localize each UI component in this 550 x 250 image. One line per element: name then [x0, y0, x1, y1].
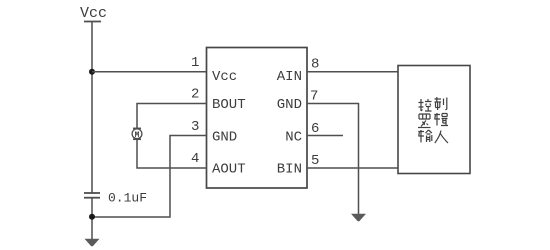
motor M — [132, 128, 142, 140]
wire pin2 BOUT — [137, 104, 207, 130]
pin number 1 — [191, 55, 199, 71]
svg-text:NC: NC — [285, 130, 302, 146]
char Kong (control) — [419, 99, 432, 111]
capacitor C1 bottom plate — [84, 197, 100, 199]
wire pin7 GND down to ground — [307, 104, 359, 215]
label control logic input (hand-drawn CJK) — [418, 97, 448, 143]
svg-text:5: 5 — [311, 153, 319, 169]
node junction at Vcc/pin1 — [89, 69, 95, 75]
pin label Vcc (pin 1) — [212, 69, 237, 85]
svg-text:Vcc: Vcc — [212, 69, 237, 85]
node junction at capacitor/GND rail — [89, 214, 95, 220]
pin label GND (pin 3) — [212, 130, 237, 146]
svg-text:GND: GND — [277, 97, 302, 113]
Vcc rail symbol — [84, 21, 101, 23]
svg-text:4: 4 — [191, 151, 199, 167]
char Shu (transport) — [418, 130, 432, 143]
svg-text:AIN: AIN — [277, 69, 302, 85]
pin number 6 — [311, 121, 319, 137]
wire pin3 GND to bottom rail — [92, 136, 207, 218]
pin label NC (pin 6) — [285, 130, 302, 146]
wire pin6 NC stub — [307, 135, 343, 137]
svg-text:3: 3 — [191, 119, 199, 135]
pin number 7 — [310, 89, 318, 105]
wire pin8 AIN to control box — [307, 71, 398, 73]
capacitor C1 top plate — [84, 192, 100, 194]
svg-text:AOUT: AOUT — [212, 162, 246, 178]
pin label AIN (pin 8) — [277, 69, 302, 85]
IC U1 body — [207, 48, 308, 189]
wire Vcc vertical — [91, 22, 93, 194]
char Zhi (system) — [435, 97, 447, 110]
pin label BIN (pin 5) — [277, 162, 302, 178]
wire motor to pin4 — [137, 139, 207, 168]
ground symbol left — [85, 239, 100, 247]
svg-text:6: 6 — [311, 121, 319, 137]
wire pin5 BIN to control box — [307, 167, 398, 169]
pin label BOUT (pin 2) — [212, 97, 246, 113]
svg-text:M: M — [135, 131, 140, 140]
svg-text:Vcc: Vcc — [80, 5, 107, 22]
svg-text:1: 1 — [191, 55, 199, 71]
pin number 3 — [191, 119, 199, 135]
control logic input box — [398, 66, 470, 174]
svg-text:2: 2 — [191, 87, 199, 103]
svg-text:0.1uF: 0.1uF — [108, 191, 147, 206]
wire pin1 — [92, 71, 207, 73]
svg-text:7: 7 — [310, 89, 318, 105]
svg-text:BOUT: BOUT — [212, 97, 246, 113]
pin number 4 — [191, 151, 199, 167]
svg-text:GND: GND — [212, 130, 237, 146]
svg-text:8: 8 — [311, 57, 319, 73]
ground symbol right — [351, 214, 366, 222]
char Ji (edit) — [434, 113, 448, 126]
pin label AOUT (pin 4) — [212, 162, 246, 178]
pin label GND (pin 7) — [277, 97, 302, 113]
pin number 2 — [191, 87, 199, 103]
svg-text:BIN: BIN — [277, 162, 302, 178]
pin number 8 — [311, 57, 319, 73]
net label Vcc — [80, 5, 107, 22]
char Ru (input) — [435, 131, 448, 144]
pin number 5 — [311, 153, 319, 169]
wire capacitor to ground — [91, 198, 93, 239]
value label 0.1uF — [108, 191, 147, 206]
char Luo/Luo2 (logic) — [418, 114, 431, 128]
